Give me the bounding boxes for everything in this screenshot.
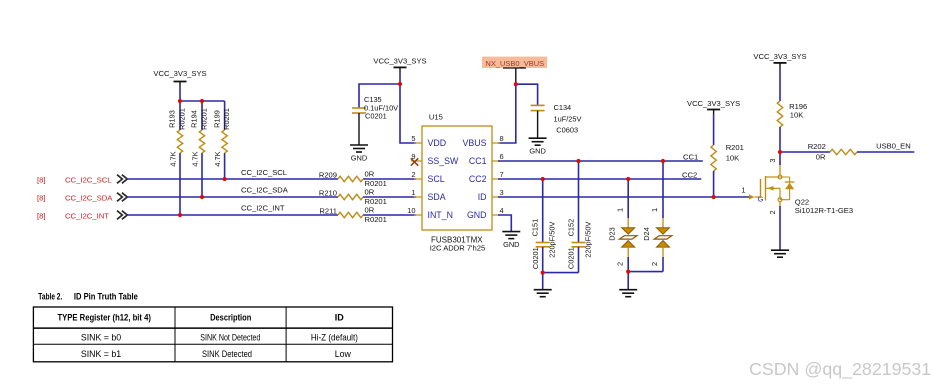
- wire R199 column lower to SCL: [224, 153, 226, 179]
- wire R193 column upper: [179, 101, 181, 130]
- wire R196 top: [779, 68, 781, 101]
- pin 1 SDA (left): [411, 188, 445, 202]
- svg-text:1: 1: [411, 188, 415, 197]
- svg-text:R201: R201: [726, 143, 744, 152]
- wire C152 stem upper: [578, 161, 580, 243]
- svg-text:USB0_EN: USB0_EN: [876, 141, 911, 150]
- wire CC2 net: [498, 178, 701, 180]
- wire R194 column upper: [201, 101, 203, 130]
- svg-text:2: 2: [768, 210, 777, 214]
- svg-text:D23: D23: [607, 227, 616, 241]
- svg-text:SINK Not Detected: SINK Not Detected: [200, 332, 260, 342]
- svg-text:220pF/50V: 220pF/50V: [548, 222, 557, 258]
- capacitor C135 0.1uF/10V: [352, 95, 398, 121]
- svg-text:GND: GND: [529, 147, 545, 156]
- wire CC_I2C_SCL left: [127, 178, 338, 180]
- pin 5 VDD (left): [411, 134, 446, 148]
- wire R194 column lower to SDA: [201, 153, 203, 197]
- svg-text:CC_I2C_SCL: CC_I2C_SCL: [65, 175, 112, 184]
- wire VBUS junction to C134: [516, 84, 538, 105]
- svg-text:INT_N: INT_N: [428, 210, 453, 220]
- svg-text:2: 2: [411, 170, 415, 179]
- wire ID net to Q22 gate: [498, 196, 749, 198]
- svg-text:0R: 0R: [816, 153, 826, 162]
- svg-text:2: 2: [650, 262, 659, 266]
- resistor R196 10K: [777, 101, 807, 127]
- ground chip pin 4: [502, 232, 520, 250]
- wire CC_I2C_SDA left: [127, 196, 338, 198]
- svg-text:8: 8: [500, 134, 504, 143]
- wire CC_I2C_SDA right: [363, 196, 416, 198]
- junction C151 / CC2: [541, 177, 545, 181]
- ground below C135: [350, 145, 368, 163]
- resistor R210 0R: [319, 187, 387, 206]
- junction pullup rail / R194: [200, 99, 204, 103]
- svg-text:VCC_3V3_SYS: VCC_3V3_SYS: [153, 69, 206, 78]
- svg-text:VCC_3V3_SYS: VCC_3V3_SYS: [373, 57, 426, 66]
- svg-text:I2C ADDR 7'h25: I2C ADDR 7'h25: [430, 244, 485, 253]
- wire VBUS junction drop to pin 8: [498, 84, 516, 143]
- wire C151 stem lower: [542, 247, 544, 273]
- wire D24 stem upper: [662, 161, 664, 218]
- pin 6 CC1 (right): [469, 152, 504, 166]
- power symbol VCC_3V3_SYS (R201): [687, 99, 740, 115]
- svg-text:VBUS: VBUS: [463, 138, 487, 148]
- svg-text:CSDN @qq_28219531: CSDN @qq_28219531: [749, 359, 931, 380]
- junction D23 / CC2: [626, 177, 630, 181]
- svg-text:R209: R209: [319, 170, 337, 179]
- svg-text:220pF/50V: 220pF/50V: [583, 222, 592, 258]
- wire Q22 source to gnd: [779, 206, 781, 250]
- wire VDD junction to C135: [359, 84, 400, 108]
- wire pin4 GND wire: [498, 215, 511, 232]
- junction R201 / ID: [712, 195, 716, 199]
- truth table: [33, 307, 392, 362]
- resistor R211 0R: [319, 205, 386, 224]
- svg-text:4.7K: 4.7K: [213, 151, 222, 166]
- junction SDA / R194: [200, 195, 204, 199]
- wire power stub to VDD junction: [399, 72, 401, 84]
- wire power stub to pullup rail: [179, 87, 181, 102]
- wire C135 to ground: [358, 113, 360, 145]
- svg-text:Si1012R-T1-GE3: Si1012R-T1-GE3: [795, 206, 853, 215]
- svg-text:4.7K: 4.7K: [190, 151, 199, 166]
- svg-text:1uF/25V: 1uF/25V: [554, 114, 582, 123]
- svg-text:CC1: CC1: [469, 156, 487, 166]
- svg-text:4.7K: 4.7K: [168, 151, 177, 166]
- junction R196 / R202 / Q22: [778, 150, 782, 154]
- svg-text:R202: R202: [808, 142, 826, 151]
- ground below C151: [534, 290, 552, 297]
- resistor R209 0R: [319, 169, 387, 188]
- junction C151 bottom rail: [541, 271, 545, 275]
- wire R202 left: [780, 151, 830, 153]
- svg-text:C134: C134: [554, 103, 572, 112]
- svg-text:CC2: CC2: [469, 174, 487, 184]
- svg-text:C152: C152: [566, 219, 575, 237]
- pin 9 SS_SW (left): [411, 152, 459, 166]
- svg-text:CC_I2C_SCL: CC_I2C_SCL: [241, 168, 287, 177]
- svg-text:VCC_3V3_SYS: VCC_3V3_SYS: [753, 52, 806, 61]
- transistor Q22 Si1012R-T1-GE3: [741, 152, 853, 215]
- junction SCL / R199: [223, 177, 227, 181]
- svg-text:R211: R211: [319, 206, 337, 215]
- svg-text:SINK = b0: SINK = b0: [81, 332, 121, 342]
- svg-text:SINK Detected: SINK Detected: [202, 349, 252, 359]
- svg-text:[8]: [8]: [37, 175, 46, 184]
- wire R193 column lower to INT: [179, 153, 181, 215]
- svg-text:GND: GND: [503, 240, 519, 249]
- junction pullup rail / R193: [178, 99, 182, 103]
- wire C151 gnd stem: [542, 273, 544, 290]
- svg-text:SINK = b1: SINK = b1: [81, 349, 121, 359]
- resistor R199 4.7K: [212, 108, 231, 167]
- svg-text:R0201: R0201: [178, 108, 187, 130]
- svg-text:Low: Low: [335, 349, 352, 359]
- svg-text:C0603: C0603: [556, 125, 578, 134]
- wire R201 top: [713, 115, 715, 146]
- svg-text:Table 2.: Table 2.: [38, 292, 62, 302]
- junction VDD junction: [398, 82, 402, 86]
- svg-text:10K: 10K: [726, 154, 740, 163]
- svg-text:TYPE Register (h12, bit 4): TYPE Register (h12, bit 4): [57, 312, 151, 322]
- resistor R193 4.7K: [168, 108, 187, 167]
- wire D23 stem lower: [627, 257, 629, 272]
- svg-text:1: 1: [741, 186, 745, 195]
- no-connect X on pin 9 SS_SW: [411, 158, 418, 165]
- svg-text:R0201: R0201: [222, 108, 231, 130]
- port label [8] CC_I2C_SCL: [37, 175, 127, 185]
- junction C152 / CC1: [576, 159, 580, 163]
- svg-text:SDA: SDA: [428, 192, 446, 202]
- svg-text:ID: ID: [478, 192, 487, 202]
- svg-text:U15: U15: [429, 113, 443, 122]
- ground below D23: [619, 290, 637, 297]
- svg-text:CC_I2C_INT: CC_I2C_INT: [241, 204, 285, 213]
- pin 7 CC2 (right): [469, 170, 504, 184]
- svg-text:R199: R199: [212, 110, 221, 128]
- svg-text:R196: R196: [789, 102, 807, 111]
- power symbol VCC_3V3_SYS (VDD rail): [373, 57, 426, 73]
- svg-text:SCL: SCL: [428, 174, 445, 184]
- svg-text:C0201: C0201: [531, 247, 540, 269]
- wire D23-D24 bottom rail: [628, 271, 663, 273]
- svg-text:[8]: [8]: [37, 193, 46, 202]
- wire pullup rail y=101: [180, 100, 225, 102]
- svg-text:10: 10: [407, 206, 415, 215]
- ground below Q22: [771, 250, 789, 257]
- junction D23 bottom rail: [626, 270, 630, 274]
- junction INT / R193: [178, 213, 182, 217]
- capacitor C151 220pF/50V: [531, 219, 557, 269]
- pin 3 ID (right): [478, 188, 504, 202]
- pin 4 GND (right): [467, 206, 504, 220]
- wire R199 column upper: [224, 101, 226, 130]
- svg-text:R210: R210: [319, 188, 337, 197]
- svg-text:ID: ID: [335, 312, 345, 322]
- svg-text:4: 4: [500, 206, 504, 215]
- svg-text:7: 7: [500, 170, 504, 179]
- wire CC_I2C_INT right: [363, 214, 416, 216]
- wire VDD junction drop: [400, 84, 416, 143]
- svg-text:R0201: R0201: [365, 215, 387, 224]
- svg-text:R0201: R0201: [200, 108, 209, 130]
- svg-text:VCC_3V3_SYS: VCC_3V3_SYS: [687, 99, 740, 108]
- wire CC1 net: [498, 160, 703, 162]
- svg-text:SS_SW: SS_SW: [428, 156, 459, 166]
- svg-text:CC_I2C_SDA: CC_I2C_SDA: [65, 193, 113, 202]
- wire CC_I2C_INT left: [127, 214, 338, 216]
- svg-text:1: 1: [615, 208, 624, 212]
- port label [8] CC_I2C_SDA: [37, 193, 127, 203]
- svg-text:[8]: [8]: [37, 211, 46, 220]
- svg-text:CC1: CC1: [683, 152, 698, 161]
- junction D24 / CC1: [661, 159, 665, 163]
- svg-text:NX_USB0_VBUS: NX_USB0_VBUS: [485, 59, 544, 68]
- pin 8 VBUS (right): [463, 134, 504, 148]
- svg-text:5: 5: [411, 134, 415, 143]
- svg-text:D24: D24: [642, 227, 651, 241]
- svg-text:CC2: CC2: [682, 170, 697, 179]
- svg-text:Hi-Z (default): Hi-Z (default): [311, 332, 358, 342]
- svg-text:GND: GND: [351, 154, 367, 163]
- ground below C134: [529, 138, 547, 156]
- svg-text:ID Pin Truth Table: ID Pin Truth Table: [74, 292, 138, 302]
- svg-text:R193: R193: [168, 110, 177, 128]
- wire R201 bottom to ID: [713, 171, 715, 197]
- capacitor C152 220pF/50V: [566, 219, 592, 269]
- svg-text:C0201: C0201: [365, 111, 387, 120]
- svg-text:R194: R194: [190, 110, 199, 128]
- svg-text:10K: 10K: [790, 111, 804, 120]
- resistor R201 10K: [711, 143, 744, 171]
- wire C151 stem upper: [542, 179, 544, 243]
- svg-text:Description: Description: [210, 312, 251, 322]
- svg-text:6: 6: [500, 152, 504, 161]
- diode D24 TVS: [642, 208, 672, 266]
- svg-text:3: 3: [768, 158, 777, 162]
- wire C134 to ground: [537, 111, 539, 139]
- net flag NX_USB0_VBUS: [482, 57, 547, 85]
- svg-text:VDD: VDD: [428, 138, 447, 148]
- power symbol VCC_3V3_SYS (R196): [753, 52, 806, 68]
- svg-text:1: 1: [650, 208, 659, 212]
- svg-text:0R: 0R: [365, 205, 375, 214]
- svg-text:GND: GND: [467, 210, 487, 220]
- svg-text:3: 3: [500, 188, 504, 197]
- wire D23 stem upper: [627, 179, 629, 218]
- junction VBUS junction: [514, 82, 518, 86]
- wire CC_I2C_SCL right: [363, 178, 416, 180]
- svg-text:C0201: C0201: [567, 247, 576, 269]
- capacitor C134 1uF/25V: [531, 103, 582, 134]
- wire D23 gnd stem: [627, 272, 629, 290]
- port label [8] CC_I2C_INT: [37, 211, 127, 221]
- svg-text:C151: C151: [531, 219, 540, 237]
- diode D23 TVS: [607, 208, 637, 266]
- op-amp U15 FUSB301TMX body: [422, 113, 492, 253]
- table title: [38, 292, 138, 302]
- svg-text:CC_I2C_INT: CC_I2C_INT: [65, 211, 109, 220]
- wire C151-C152 bottom rail: [543, 272, 579, 274]
- resistor R194 4.7K: [190, 108, 209, 167]
- resistor R202 0R: [780, 142, 857, 162]
- svg-text:CC_I2C_SDA: CC_I2C_SDA: [241, 186, 289, 195]
- pin 10 INT_N (left): [407, 206, 453, 220]
- svg-text:0R: 0R: [365, 169, 375, 178]
- wire R196 bottom: [779, 127, 781, 152]
- power symbol VCC_3V3_SYS (left pullups): [153, 69, 206, 87]
- wire D24 stem lower: [662, 257, 664, 272]
- svg-text:0R: 0R: [365, 187, 375, 196]
- wire C152 stem lower: [578, 247, 580, 273]
- svg-text:2: 2: [615, 262, 624, 266]
- wire R202 right to USB0_EN: [857, 151, 914, 153]
- pin 2 SCL (left): [411, 170, 444, 184]
